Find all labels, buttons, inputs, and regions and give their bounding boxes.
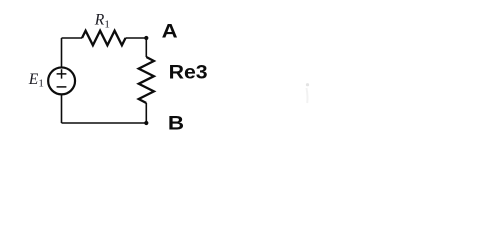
- node B: [144, 121, 148, 125]
- wire top-right horizontal: [126, 37, 147, 39]
- svg-text:A: A: [162, 20, 178, 42]
- svg-text:Re3: Re3: [169, 61, 208, 83]
- svg-text:R1: R1: [94, 11, 110, 30]
- wire left lower vertical: [61, 95, 63, 123]
- svg-text:B: B: [168, 112, 184, 134]
- wire bottom horizontal: [62, 122, 147, 124]
- wire right lower vertical: [145, 103, 147, 123]
- wire top-left horizontal: [62, 37, 83, 39]
- resistor R1: [82, 31, 126, 46]
- faint smudge artifact: [306, 83, 309, 86]
- node A: [144, 36, 148, 40]
- wire left upper vertical: [61, 38, 63, 67]
- svg-text:E1: E1: [28, 71, 44, 90]
- voltage source E1: [48, 67, 75, 94]
- resistor Re3: [139, 57, 154, 103]
- wire right upper vertical: [145, 38, 147, 57]
- plus sign: [57, 69, 67, 78]
- minus sign: [57, 86, 67, 88]
